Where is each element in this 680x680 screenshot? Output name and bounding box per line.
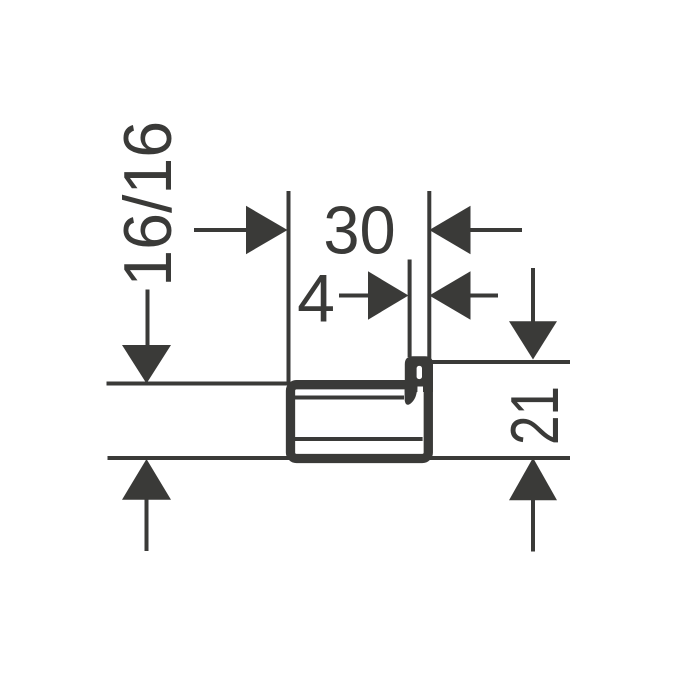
profile hook block (405, 356, 433, 392)
arrow 16 up (122, 459, 171, 500)
dimension line 16 lower (145, 497, 149, 551)
dimension line 4 right (466, 294, 498, 298)
arrow 21 up (509, 458, 557, 501)
arrow 4 right (429, 271, 470, 319)
arrow 30 right (429, 206, 470, 254)
dimension line 30 left (194, 228, 250, 232)
extension line left of 4 (408, 260, 412, 358)
extension line bottom right (429, 456, 570, 460)
extension line right of 30 (427, 191, 431, 360)
profile inner bottom line (295, 437, 423, 441)
svg-text:4: 4 (297, 260, 335, 336)
arrow 16 down (122, 345, 171, 384)
profile inner top line (295, 396, 404, 400)
arrow 30 left (246, 206, 288, 254)
dimension line 21 upper (531, 268, 535, 324)
arrow 21 down (509, 321, 557, 359)
arrow 4 left (368, 271, 409, 319)
extension line bottom left (108, 456, 291, 460)
profile hook tail (405, 380, 418, 405)
extension line top left (107, 382, 291, 386)
svg-text:30: 30 (323, 193, 395, 269)
profile outer body (291, 385, 429, 459)
extension line left of 30 (287, 191, 291, 384)
dimension line 4 left (339, 294, 373, 298)
svg-text:16/16: 16/16 (110, 121, 186, 287)
extension line top right (431, 360, 570, 364)
dimension line 16 upper (146, 290, 150, 346)
profile hook cavity channel (417, 387, 423, 401)
profile hook slot (417, 366, 422, 379)
dimension line 30 right (466, 228, 522, 232)
svg-text:21: 21 (497, 386, 573, 445)
dimension line 21 lower (531, 498, 535, 552)
